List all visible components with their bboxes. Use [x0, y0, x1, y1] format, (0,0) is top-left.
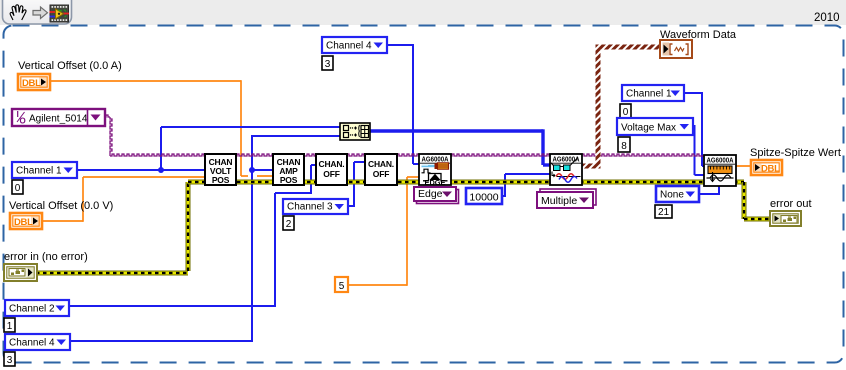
svg-text:OFF: OFF	[323, 169, 339, 179]
svg-text:Channel 1: Channel 1	[16, 166, 62, 177]
svg-text:8: 8	[621, 141, 627, 152]
svg-text:DBL: DBL	[761, 164, 780, 175]
svg-text:Voltage Max: Voltage Max	[621, 123, 676, 134]
svg-text:1: 1	[7, 321, 13, 332]
svg-text:Multiple: Multiple	[541, 195, 577, 207]
svg-text:3: 3	[325, 59, 331, 70]
svg-text:10000: 10000	[469, 192, 498, 204]
svg-text:Channel 3: Channel 3	[287, 202, 333, 213]
svg-text:0: 0	[15, 183, 21, 194]
svg-text:Agilent_5014: Agilent_5014	[29, 114, 88, 125]
svg-text:3: 3	[7, 355, 13, 366]
svg-text:21: 21	[658, 207, 670, 218]
svg-text:CHAN.: CHAN.	[368, 159, 394, 169]
svg-text:0: 0	[623, 107, 629, 118]
svg-text:2010: 2010	[814, 12, 840, 24]
svg-text:Edge: Edge	[418, 188, 443, 200]
svg-text:EDGE: EDGE	[425, 178, 446, 187]
svg-text:AG6000A: AG6000A	[422, 155, 450, 164]
svg-text:error in (no error): error in (no error)	[4, 251, 88, 263]
svg-text:POS: POS	[212, 175, 230, 185]
svg-text:Channel 2: Channel 2	[9, 304, 55, 315]
svg-text:CHAN.: CHAN.	[319, 159, 345, 169]
svg-text:Channel 4: Channel 4	[326, 41, 372, 52]
svg-text:POS: POS	[280, 175, 298, 185]
svg-text:DBL: DBL	[14, 217, 33, 228]
svg-text:Channel 4: Channel 4	[9, 338, 55, 349]
svg-text:Vertical Offset (0.0 A): Vertical Offset (0.0 A)	[18, 60, 122, 72]
svg-text:error out: error out	[770, 198, 812, 210]
svg-text:5: 5	[339, 281, 345, 292]
svg-text:2: 2	[286, 219, 292, 230]
svg-text:AG6000A: AG6000A	[707, 156, 735, 165]
svg-text:Vertical Offset (0.0 V): Vertical Offset (0.0 V)	[9, 200, 113, 212]
svg-text:Channel 1: Channel 1	[626, 89, 672, 100]
svg-text:OFF: OFF	[373, 169, 389, 179]
svg-text:None: None	[660, 190, 684, 201]
svg-text:DBL: DBL	[22, 78, 41, 89]
svg-text:Spitze-Spitze Wert: Spitze-Spitze Wert	[750, 147, 841, 159]
